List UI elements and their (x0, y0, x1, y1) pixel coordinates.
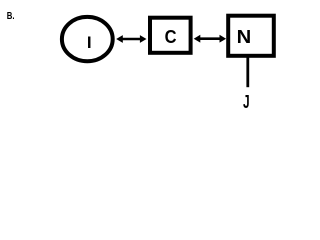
node N (rectangle) (228, 16, 274, 56)
svg-text:B.: B. (7, 11, 15, 22)
wire: double arrow I-C (116, 35, 146, 43)
node C (rectangle) (150, 18, 191, 53)
svg-text:C: C (165, 27, 177, 47)
node I (ellipse) (62, 17, 113, 61)
wire: line N to J (246, 56, 249, 87)
wire: double arrow C-N (194, 35, 226, 43)
svg-text:I: I (87, 33, 92, 52)
svg-text:N: N (237, 27, 252, 47)
svg-text:J: J (243, 92, 250, 112)
